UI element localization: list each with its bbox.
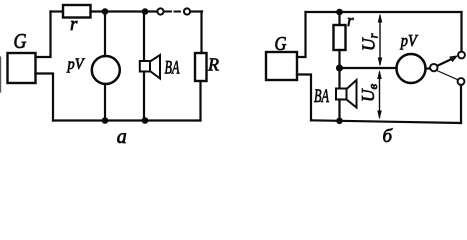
svg-text:pV: pV: [67, 56, 85, 73]
resistor r (a): [63, 5, 91, 18]
dimension arrow Uv (b): [377, 70, 382, 120]
switch arm with arrow (b): [438, 55, 459, 65]
wire R branch bottom (a): [199, 81, 201, 121]
wire bottom rail (a): [53, 119, 201, 121]
node junction dot BA bottom (a): [142, 117, 149, 124]
switch lower contact circle (b): [458, 78, 465, 85]
switch S contact left (a): [157, 8, 163, 14]
svg-text:G: G: [275, 34, 287, 55]
node junction dot r top (b): [336, 9, 343, 16]
dimension arrow Ur (b): [378, 14, 383, 67]
wire G lower stub to bottom rail (a): [36, 74, 54, 121]
svg-text:r: r: [347, 11, 354, 30]
generator G box (b): [266, 52, 297, 80]
wire pV branch top (a): [104, 12, 106, 57]
svg-text:pV: pV: [400, 31, 419, 50]
wire r bottom to speaker (b): [338, 50, 340, 89]
wire pV branch bottom (a): [104, 84, 106, 121]
switch S dashed gap (a): [166, 11, 184, 13]
node junction dot pV top (a): [102, 8, 109, 15]
scan edge artifact left: [0, 57, 2, 92]
svg-text:Uв: Uв: [358, 83, 380, 102]
wire top rail left segment (a): [51, 10, 64, 12]
svg-text:G: G: [14, 29, 27, 53]
svg-text:Ur: Ur: [359, 33, 381, 51]
node junction dot bottom (b): [336, 118, 343, 125]
wire top rail (b): [306, 11, 462, 13]
node junction dot BA top (a): [142, 8, 149, 15]
wire G lower stub to bottom rail (b): [297, 75, 311, 121]
wire left vertical from rail to G (a): [36, 12, 51, 58]
wire upper contact to top rail (b): [460, 12, 462, 52]
resistor r vertical (b): [334, 25, 346, 50]
switch pole contact circle (b): [430, 64, 437, 71]
wire mid horizontal to pV (b): [340, 67, 397, 69]
wire left vertical from rail to G (b): [297, 12, 306, 57]
loudspeaker BA symbol (a): [140, 55, 160, 79]
wire r top stub (b): [338, 12, 340, 25]
node junction dot pV bottom (a): [102, 117, 109, 124]
wire bottom rail (b): [311, 120, 461, 123]
resistor R (a): [195, 53, 207, 81]
svg-text:R: R: [207, 54, 219, 74]
wire top rail right segment (a): [190, 10, 202, 12]
switch S contact right (a): [184, 8, 190, 14]
loudspeaker BA symbol (b): [336, 80, 357, 108]
svg-text:б: б: [383, 126, 394, 147]
wire lower contact to bottom rail (b): [460, 85, 462, 123]
wire pV to switch pole (b): [426, 67, 431, 69]
wire top rail mid segment (a): [91, 10, 157, 12]
svg-text:r: r: [70, 14, 78, 35]
node junction dot mid (b): [336, 64, 343, 71]
svg-text:а: а: [117, 126, 127, 147]
switch upper contact circle (b): [458, 52, 465, 59]
voltmeter pV circle (a): [92, 56, 120, 84]
switch lower throw thin line (b): [437, 71, 458, 80]
svg-text:BA: BA: [165, 58, 180, 79]
svg-text:BA: BA: [314, 86, 329, 107]
voltmeter pV circle (b): [397, 54, 426, 83]
wire R branch top (a): [200, 12, 202, 54]
wire BA bottom (b): [338, 100, 340, 121]
wire BA branch (a): [143, 12, 145, 121]
generator G box (a): [8, 53, 36, 83]
